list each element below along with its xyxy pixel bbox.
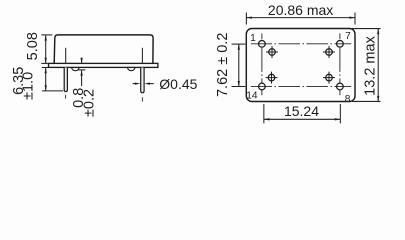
dimension Ø0.45: left arrow pointing right at pin	[133, 83, 136, 85]
dimension 7.62 ±0.2: dimension line	[238, 44, 240, 86]
dimension 6.35 ±1.0: extension line at flange bottom	[42, 67, 49, 69]
pin 2 side view (right pin)	[141, 68, 144, 93]
side view: can body	[54, 35, 153, 64]
pin 7 circle	[337, 40, 344, 47]
svg-text:5.08: 5.08	[25, 32, 41, 60]
dimension 15.24: dimension line	[264, 118, 340, 120]
pin 8 circle	[337, 83, 344, 90]
dimension 0.8 ±0.2: lower arrow pointing up to dimple bottom	[81, 70, 83, 86]
standoff dimple right	[128, 68, 135, 71]
dimension 5.08: dimension line	[45, 35, 47, 63]
pin 14 circle	[259, 83, 266, 90]
svg-text:1: 1	[250, 33, 256, 44]
svg-text:14: 14	[246, 90, 258, 101]
svg-text:13.2 max: 13.2 max	[363, 35, 379, 95]
standoff circle top-left with center marks	[266, 46, 278, 58]
dimension 7.62 ±0.2: extension lines	[232, 43, 246, 45]
svg-text:7: 7	[345, 31, 351, 42]
center line vertical through pins 7 and 8	[339, 33, 341, 95]
svg-text:15.24: 15.24	[284, 103, 319, 119]
standoff circle bottom-right with center marks	[323, 72, 335, 84]
hidden pin line inside can (right)	[141, 48, 143, 64]
center dash below right pin	[141, 97, 143, 101]
dimension 13.2 max: dimension line	[377, 29, 379, 102]
center line horizontal through pin row 1-7	[251, 43, 351, 45]
svg-text:±1.0: ±1.0	[21, 72, 37, 100]
pin 1 side view (left pin)	[64, 68, 67, 92]
pin 1 circle	[259, 40, 266, 47]
side view: base flange	[49, 63, 158, 67]
hidden pin line inside can (left)	[65, 48, 67, 64]
bottom view: package outline	[246, 29, 355, 102]
center dash below left pin	[65, 95, 67, 99]
svg-text:7.62 ± 0.2: 7.62 ± 0.2	[215, 33, 231, 97]
svg-text:±0.2: ±0.2	[81, 89, 97, 117]
dimension 15.24: extension lines	[263, 104, 265, 123]
standoff dimple left	[72, 68, 79, 71]
dimension 20.86 max: extension lines	[245, 13, 247, 25]
dimension Ø0.45: right arrow pointing left at pin	[144, 82, 150, 84]
dimension 0.8 ±0.2: extension line at dimple bottom	[78, 69, 85, 71]
center line vertical through pins 1 and 14	[261, 33, 263, 95]
standoff circle top-right with center marks	[323, 46, 335, 58]
dimension 5.08: extension line at flange top	[41, 62, 48, 64]
dimension 20.86 max: dimension line	[247, 17, 355, 19]
svg-text:20.86 max: 20.86 max	[268, 2, 333, 18]
dimension 5.08: extension line at can top	[41, 34, 52, 36]
svg-text:8: 8	[345, 94, 351, 105]
dimension 6.35 ±1.0: extension line at pin tip	[42, 90, 63, 92]
dimension 13.2 max: extension lines	[352, 28, 381, 30]
dimension 0.8 ±0.2: upper arrow pointing down to flange top	[81, 58, 83, 64]
standoff circle bottom-left with center marks	[266, 72, 278, 84]
dimension 6.35 ±1.0: dimension line	[45, 68, 47, 91]
svg-text:Ø0.45: Ø0.45	[159, 76, 197, 92]
center line horizontal through pin row 14-8	[251, 86, 351, 88]
